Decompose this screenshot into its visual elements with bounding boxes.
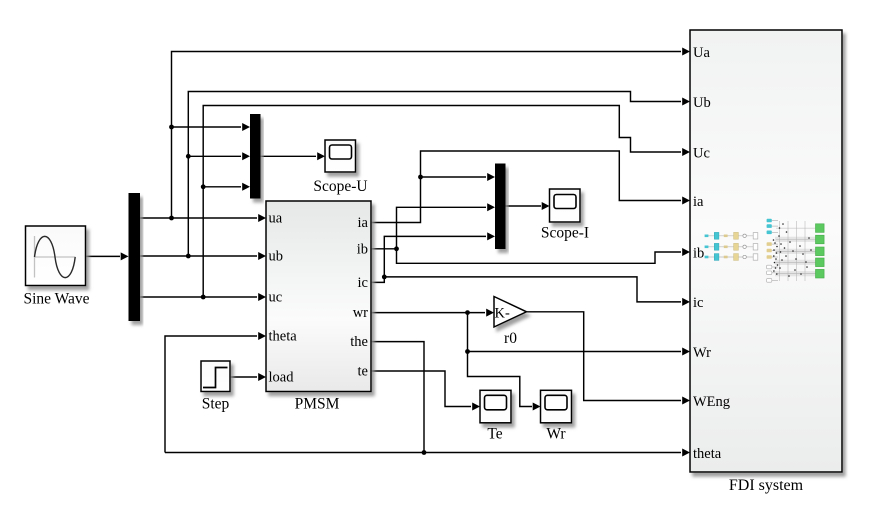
- svg-text:theta: theta: [693, 446, 722, 462]
- nn vert line: [804, 221, 806, 281]
- nn left row line: [705, 246, 756, 248]
- arrow into FDI theta: [682, 449, 690, 457]
- svg-text:Wr: Wr: [546, 426, 566, 443]
- node ub/mux2: [186, 154, 191, 159]
- arrow into FDI Uc: [682, 148, 690, 156]
- arrow into PMSM uc: [258, 293, 266, 301]
- nn circle: [743, 255, 746, 258]
- svg-text:Ua: Ua: [693, 45, 710, 61]
- nn white box: [753, 244, 758, 250]
- wire uc branch up to FDI Uc: [203, 106, 681, 298]
- svg-text:r0: r0: [504, 330, 517, 347]
- nn tan box: [734, 254, 739, 261]
- arrow into Mux3 input 1: [487, 173, 495, 181]
- wire Sine Wave to Mux1: [86, 255, 121, 257]
- node wr branch 1: [465, 310, 470, 315]
- nn green box: [816, 269, 825, 278]
- node ua/mux1: [169, 216, 174, 221]
- wire uc branch to Mux2 input 3: [203, 186, 241, 188]
- arrow into FDI Ua: [682, 48, 690, 56]
- nn left row line: [705, 256, 756, 258]
- svg-text:ia: ia: [693, 194, 704, 210]
- svg-text:Ub: Ub: [693, 95, 711, 111]
- arrow into Mux1: [121, 252, 129, 260]
- svg-text:Scope-I: Scope-I: [541, 225, 589, 242]
- svg-text:PMSM: PMSM: [295, 396, 340, 413]
- arrow into Mux2 input 3: [242, 183, 250, 191]
- arrow into FDI WEng: [682, 397, 690, 405]
- svg-text:ib: ib: [357, 241, 368, 257]
- nn cyan box: [714, 254, 719, 261]
- nn circle: [743, 245, 746, 248]
- nn white box: [753, 254, 758, 260]
- node ua/mux2: [169, 125, 174, 130]
- arrow into gain r0: [486, 309, 494, 317]
- nn gray band: [775, 271, 816, 276]
- wire ua: Mux1 to PMSM ua: [140, 217, 257, 219]
- nn mid white: [767, 265, 772, 269]
- wire the: PMSM down to bottom wire: [371, 342, 424, 453]
- node wr branch 2: [465, 349, 470, 354]
- nn tan dash: [724, 256, 728, 259]
- svg-text:Uc: Uc: [693, 145, 710, 161]
- wire bottom theta to FDI theta: [165, 452, 681, 454]
- nn horiz line: [776, 239, 816, 241]
- node uc/mux2: [201, 184, 206, 189]
- nn mid white: [767, 271, 772, 275]
- wire ia branch to Mux3 input 1: [421, 176, 487, 178]
- wire ua branch up to FDI Ua: [172, 52, 682, 219]
- node uc/mux1: [201, 295, 206, 300]
- wire Mux2 to Scope-U: [261, 155, 317, 157]
- arrow into Mux3 input 2: [487, 203, 495, 211]
- mux M3: [495, 164, 506, 250]
- wire ia: PMSM to FDI ia: [371, 151, 681, 223]
- block Te scope: [480, 390, 511, 423]
- wire uc: Mux1 to PMSM uc: [140, 296, 257, 298]
- nn mid cyan: [767, 231, 772, 235]
- wire Step to PMSM load: [230, 376, 257, 378]
- wire wr branch to Wr scope: [468, 352, 533, 407]
- arrow into FDI ia: [682, 197, 690, 205]
- nn mid tan: [767, 242, 772, 246]
- wire Mux3 to Scope-I: [506, 205, 542, 207]
- nn horiz line: [776, 227, 816, 229]
- node ib branch: [394, 246, 399, 251]
- arrow into FDI Wr: [682, 348, 690, 356]
- nn gray band: [775, 237, 816, 242]
- nn cyan box: [714, 232, 719, 239]
- arrow into PMSM ua: [258, 214, 266, 222]
- nn gray band: [775, 249, 816, 254]
- node the/bottom: [422, 450, 427, 455]
- nn white box: [753, 233, 758, 239]
- node ub/mux1: [186, 254, 191, 259]
- nn horiz line: [776, 273, 816, 275]
- mux M1: [129, 193, 141, 321]
- svg-text:K-: K-: [495, 306, 510, 322]
- block Scope-U: [325, 140, 356, 172]
- svg-text:ic: ic: [358, 275, 368, 291]
- arrow into FDI ib: [682, 248, 690, 256]
- block FDI system: [690, 30, 842, 472]
- block Step: [201, 361, 230, 392]
- nn tan dash: [724, 235, 728, 238]
- svg-text:load: load: [269, 370, 295, 386]
- node ic branch: [382, 275, 387, 280]
- nn tan box: [734, 232, 739, 239]
- nn horiz line: [776, 250, 816, 252]
- svg-text:Step: Step: [202, 396, 230, 413]
- svg-text:FDI system: FDI system: [729, 477, 804, 494]
- arrow into Mux3 input 3: [487, 232, 495, 240]
- wire ic: PMSM to FDI ic: [371, 277, 681, 302]
- nn vert line: [796, 221, 798, 281]
- svg-text:the: the: [350, 334, 368, 350]
- wire ib branch to Mux3 input 2: [397, 207, 487, 249]
- nn left row line: [705, 235, 756, 237]
- nn tan dash: [724, 246, 728, 249]
- arrow into Scope-U: [317, 152, 325, 160]
- arrow into PMSM ub: [258, 252, 266, 260]
- wire ub branch to Mux2 input 2: [188, 155, 241, 157]
- block Scope-I: [550, 189, 581, 222]
- nn green box: [816, 258, 825, 267]
- node ia branch: [418, 175, 423, 180]
- nn mid tan: [767, 249, 772, 253]
- nn tan box: [734, 243, 739, 250]
- svg-text:ia: ia: [358, 215, 369, 231]
- svg-text:theta: theta: [269, 329, 298, 345]
- nn mid cyan: [767, 219, 772, 223]
- svg-text:te: te: [358, 364, 368, 380]
- wire wr: PMSM to gain r0: [371, 312, 485, 314]
- svg-text:Sine Wave: Sine Wave: [23, 291, 89, 308]
- nn mid cyan: [767, 224, 772, 228]
- wire wr branch to FDI Wr: [468, 313, 682, 352]
- nn green box: [816, 247, 825, 256]
- svg-text:Te: Te: [487, 426, 502, 443]
- nn horiz line: [776, 261, 816, 263]
- svg-text:Scope-U: Scope-U: [313, 178, 367, 195]
- gain r0: [494, 297, 527, 328]
- arrow into PMSM load: [258, 373, 266, 381]
- arrow into Mux2 input 1: [242, 123, 250, 131]
- neural network inset inside FDI: [705, 219, 825, 283]
- arrow into PMSM theta: [258, 332, 266, 340]
- svg-text:WEng: WEng: [693, 394, 730, 410]
- nn vert line: [787, 221, 789, 281]
- mux M2: [250, 114, 261, 199]
- wire te: PMSM to Te scope: [371, 371, 471, 407]
- wire ic branch to Mux3 input 3: [384, 236, 486, 277]
- wire ib: PMSM to FDI ib: [371, 249, 681, 263]
- wire ub: Mux1 to PMSM ub: [140, 255, 257, 257]
- nn vert line: [779, 221, 781, 281]
- block PMSM: [266, 201, 371, 392]
- wire theta feedback into PMSM theta: [165, 336, 257, 453]
- arrow into Te scope: [472, 403, 480, 411]
- svg-text:uc: uc: [269, 290, 283, 306]
- svg-text:ib: ib: [693, 245, 704, 261]
- svg-text:ub: ub: [269, 249, 284, 265]
- block Wr scope: [541, 390, 572, 423]
- svg-text:ic: ic: [693, 295, 703, 311]
- nn cyan box: [714, 243, 719, 250]
- wire ua branch to Mux2 input 1: [172, 126, 242, 128]
- nn mid white: [767, 279, 772, 283]
- block Sine Wave: [26, 226, 86, 286]
- wire ub branch up to FDI Ub: [188, 92, 681, 257]
- nn green box: [816, 235, 825, 244]
- arrow into FDI ic: [682, 298, 690, 306]
- arrow into Wr scope: [533, 403, 541, 411]
- arrow into Scope-I: [542, 202, 550, 210]
- svg-text:Wr: Wr: [693, 345, 711, 361]
- nn cyan dash: [705, 256, 709, 259]
- svg-text:ua: ua: [269, 211, 283, 227]
- arrow into FDI Ub: [682, 98, 690, 106]
- nn green box: [816, 224, 825, 233]
- nn circle: [743, 234, 746, 237]
- nn cyan dash: [705, 246, 709, 249]
- nn mid tan: [767, 255, 772, 259]
- nn cyan dash: [705, 235, 709, 238]
- arrow into Mux2 input 2: [242, 152, 250, 160]
- svg-text:wr: wr: [353, 305, 368, 321]
- wire gain r0 to FDI WEng: [527, 312, 682, 401]
- nn gray band: [775, 260, 816, 265]
